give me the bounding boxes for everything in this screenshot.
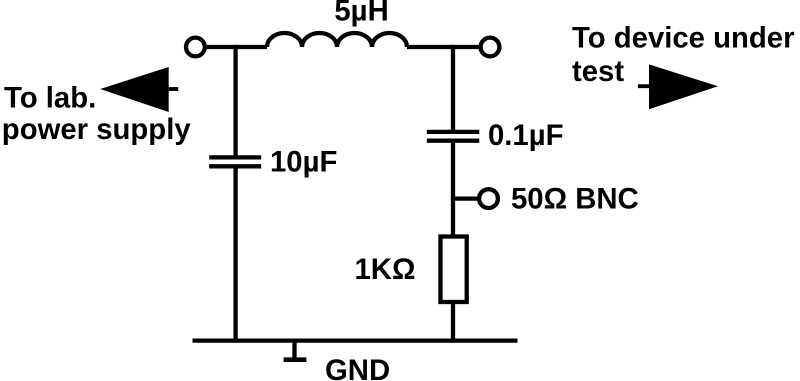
svg-text:To device under: To device under [572, 22, 795, 55]
svg-text:1KΩ: 1KΩ [355, 253, 416, 286]
svg-text:power supply: power supply [2, 113, 192, 146]
svg-text:0.1µF: 0.1µF [488, 119, 564, 152]
svg-text:test: test [572, 55, 624, 88]
svg-text:To lab.: To lab. [4, 82, 96, 115]
svg-text:10µF: 10µF [270, 146, 337, 179]
svg-text:50Ω BNC: 50Ω BNC [511, 182, 639, 215]
svg-text:5µH: 5µH [334, 0, 388, 28]
svg-text:GND: GND [325, 354, 390, 381]
